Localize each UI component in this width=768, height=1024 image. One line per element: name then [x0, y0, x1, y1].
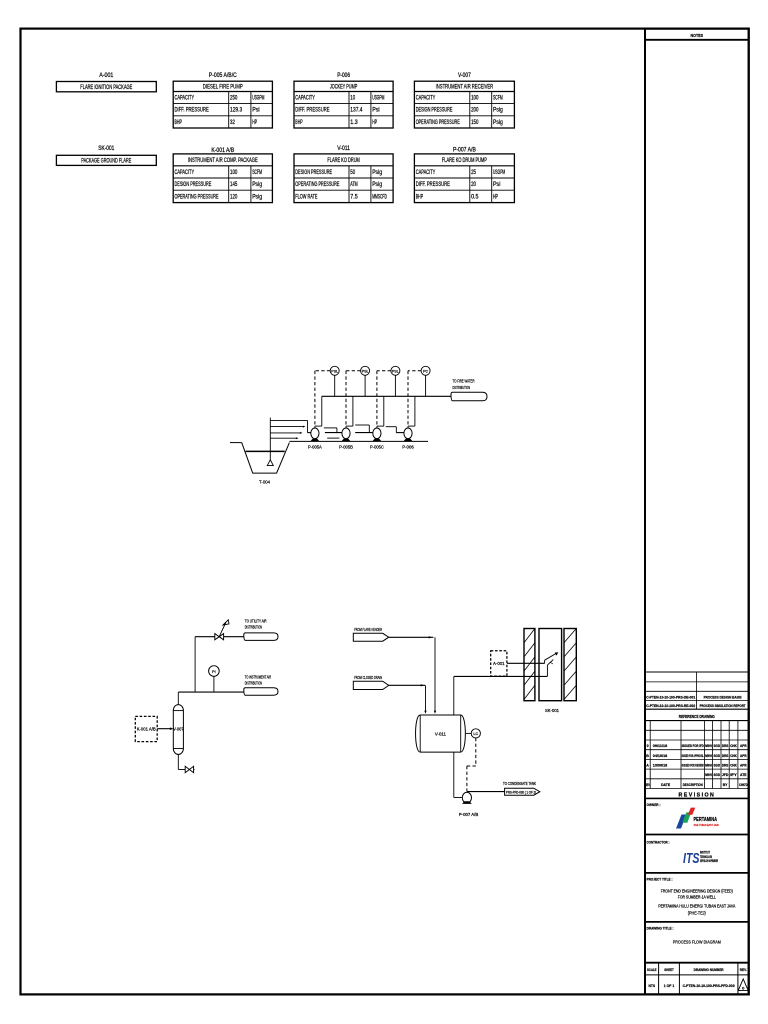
pressure control valve on utility air line — [215, 620, 229, 640]
svg-text:Psig: Psig — [493, 120, 503, 126]
flag FROM CLOSED DRAIN — [353, 675, 388, 689]
svg-text:Psi: Psi — [493, 182, 500, 188]
svg-text:20: 20 — [471, 182, 476, 188]
svg-text:V-011: V-011 — [435, 731, 447, 736]
svg-text:(PHE-TEJ): (PHE-TEJ) — [688, 911, 707, 916]
svg-text:Psig: Psig — [372, 182, 382, 188]
svg-text:DRAWING NUMBER: DRAWING NUMBER — [694, 968, 724, 972]
suction manifold line 3 — [270, 432, 301, 434]
svg-text:200: 200 — [471, 108, 479, 114]
equipment table P-007 A/B — [414, 147, 514, 202]
ground line under pumps — [289, 440, 428, 442]
svg-text:PROCESS DESIGN BASIS: PROCESS DESIGN BASIS — [704, 695, 742, 699]
svg-text:DRS: DRS — [722, 754, 729, 758]
pump P-007 A/B — [459, 792, 479, 817]
svg-text:HP: HP — [493, 194, 498, 200]
svg-text:BHP: BHP — [416, 194, 423, 200]
svg-text:REFERENCE DRAWING: REFERENCE DRAWING — [679, 714, 715, 719]
svg-text:DESCRIPTION: DESCRIPTION — [683, 783, 703, 787]
svg-text:SHEET: SHEET — [664, 968, 674, 972]
svg-text:SGD: SGD — [714, 754, 721, 758]
svg-text:C-PTEN-10-10-100-PRS-DB-001: C-PTEN-10-10-100-PRS-DB-001 — [646, 695, 695, 699]
fire water discharge header — [322, 395, 451, 397]
svg-text:SK-001: SK-001 — [545, 708, 559, 714]
svg-text:PHE TUBAN EAST JAVA: PHE TUBAN EAST JAVA — [694, 823, 719, 827]
utility air line — [195, 636, 215, 638]
svg-text:P-006: P-006 — [337, 73, 350, 79]
svg-text:DRS: DRS — [722, 764, 729, 768]
svg-text:C-PTEN-10-10-100-PRS-RE-002: C-PTEN-10-10-100-PRS-RE-002 — [646, 704, 695, 708]
svg-text:SCFM: SCFM — [493, 96, 503, 102]
svg-text:137.4: 137.4 — [350, 108, 363, 114]
svg-text:32: 32 — [230, 120, 235, 126]
svg-text:DIFF. PRESSURE: DIFF. PRESSURE — [295, 108, 329, 114]
svg-text:PACKAGE GROUND FLARE: PACKAGE GROUND FLARE — [81, 159, 131, 165]
ground flare SK-001 right wall (hatched) — [564, 629, 576, 701]
svg-text:SEPULUH NOPEMBER: SEPULUH NOPEMBER — [700, 859, 718, 863]
instrument PC for P-006 — [421, 366, 430, 375]
flag TO CONDENSATE TANK — [503, 781, 540, 795]
svg-text:TO CONDENSATE TANK: TO CONDENSATE TANK — [503, 781, 536, 786]
svg-text:TO INSTRUMENT AIR: TO INSTRUMENT AIR — [245, 675, 272, 680]
svg-text:SGD: SGD — [714, 773, 721, 777]
svg-text:SCALE: SCALE — [647, 968, 657, 972]
notes box — [645, 33, 749, 40]
svg-text:INSTRUMENT AIR RECEIVER: INSTRUMENT AIR RECEIVER — [436, 84, 494, 90]
svg-text:25: 25 — [471, 170, 476, 176]
svg-text:OPERATING PRESSURE: OPERATING PRESSURE — [295, 182, 339, 188]
svg-text:MWH: MWH — [705, 773, 712, 777]
discharge riser of P-005A — [321, 396, 323, 426]
svg-text:V-011: V-011 — [337, 146, 350, 152]
svg-text:DRAWING TITLE :: DRAWING TITLE : — [647, 925, 674, 930]
burner riser in ground flare — [546, 665, 548, 676]
svg-text:100: 100 — [471, 96, 479, 102]
svg-text:MMSCFD: MMSCFD — [372, 194, 387, 200]
closed drain inlet line — [389, 684, 425, 686]
svg-text:FLOW RATE: FLOW RATE — [295, 194, 317, 200]
svg-text:OPERATING PRESSURE: OPERATING PRESSURE — [416, 120, 460, 126]
instrument PSL for P-005A — [330, 366, 339, 375]
svg-text:CHK'D: CHK'D — [739, 783, 748, 787]
svg-text:DESIGN PRESSURE: DESIGN PRESSURE — [175, 182, 212, 188]
flag TO FIRE WATER DISTRIBUTION — [451, 378, 487, 401]
svg-text:DISTRIBUTION: DISTRIBUTION — [453, 385, 471, 391]
svg-text:APR: APR — [740, 754, 747, 758]
ground flare SK-001 left wall (hatched) — [524, 629, 535, 701]
svg-text:CAPACITY: CAPACITY — [416, 96, 436, 102]
condensate line from pump — [467, 791, 505, 793]
svg-text:FROM CLOSED DRAIN: FROM CLOSED DRAIN — [354, 675, 382, 680]
svg-text:Psig: Psig — [252, 182, 262, 188]
discharge riser of P-005C — [383, 396, 385, 426]
project title box — [645, 876, 749, 922]
svg-text:A: A — [646, 764, 649, 768]
svg-text:DIESEL FIRE PUMP: DIESEL FIRE PUMP — [203, 84, 243, 90]
svg-text:MWH: MWH — [705, 764, 712, 768]
svg-text:DESIGN PRESSURE: DESIGN PRESSURE — [416, 108, 453, 114]
svg-text:129.3: 129.3 — [230, 108, 243, 114]
svg-text:BHP: BHP — [175, 120, 182, 126]
svg-text:P-007 A/B: P-007 A/B — [453, 147, 476, 153]
air receiver vessel V-007 — [173, 705, 184, 755]
pilot line from A-001 to burner — [507, 662, 545, 664]
svg-text:PERTAMINA: PERTAMINA — [694, 817, 718, 823]
svg-text:APR: APR — [740, 744, 747, 748]
signal line (dashed) to pump — [408, 370, 421, 372]
discharge riser of P-005B — [352, 396, 354, 426]
svg-text:SGD: SGD — [714, 744, 721, 748]
PI stem — [213, 676, 215, 692]
drawing title box — [645, 925, 749, 962]
flag FROM FLARE HEADER — [353, 627, 388, 641]
suction manifold line 4 — [270, 437, 297, 439]
svg-text:JFD: JFD — [722, 773, 729, 777]
instrument stub to header — [364, 375, 366, 396]
svg-text:10: 10 — [350, 96, 355, 102]
instrument stub to header — [394, 375, 396, 396]
flare gas inlet line — [389, 636, 434, 638]
svg-text:CHK: CHK — [730, 754, 737, 758]
svg-text:DATE: DATE — [661, 783, 671, 787]
water level line in basin — [246, 450, 285, 452]
svg-text:JOCKEY PUMP: JOCKEY PUMP — [330, 84, 358, 90]
equipment table V-011 — [294, 146, 393, 203]
svg-text:1 OF 1: 1 OF 1 — [664, 984, 675, 988]
svg-text:DISTRIBUTION: DISTRIBUTION — [245, 624, 262, 629]
V-011 bottom drain line — [453, 752, 455, 797]
svg-text:P-006: P-006 — [402, 445, 414, 451]
svg-text:C-PTEN-10-10-100-PRS-PFD-003: C-PTEN-10-10-100-PRS-PFD-003 — [683, 984, 735, 988]
instrument PSL for P-005C — [391, 366, 400, 375]
svg-text:DIFF. PRESSURE: DIFF. PRESSURE — [416, 182, 450, 188]
svg-text:HP: HP — [372, 120, 377, 126]
svg-text:ISSUED FOR IFD: ISSUED FOR IFD — [682, 744, 704, 748]
svg-text:PERTAMINA HULU ENERGI TUBAN EA: PERTAMINA HULU ENERGI TUBAN EAST JAVA — [658, 904, 735, 909]
svg-text:APR: APR — [740, 764, 747, 768]
svg-text:K-001 A/B: K-001 A/B — [211, 148, 234, 154]
svg-text:PI: PI — [212, 670, 216, 674]
svg-text:CAPACITY: CAPACITY — [175, 170, 195, 176]
svg-text:FROM FLARE HEADER: FROM FLARE HEADER — [354, 627, 382, 632]
svg-text:CONTRACTOR :: CONTRACTOR : — [647, 840, 670, 845]
pump P-005C — [370, 428, 384, 451]
vessel drain line — [177, 754, 179, 769]
suction manifold line 2 — [270, 426, 304, 428]
svg-text:R E V I S I O N: R E V I S I O N — [679, 792, 715, 798]
svg-text:04/10/18: 04/10/18 — [653, 754, 667, 758]
svg-text:Psi: Psi — [372, 108, 379, 114]
svg-text:0.5: 0.5 — [471, 194, 479, 200]
svg-text:REV.: REV. — [645, 783, 651, 787]
equipment table K-001 A/B — [173, 148, 272, 203]
svg-text:PSL: PSL — [331, 370, 338, 374]
svg-text:1.3: 1.3 — [350, 120, 358, 126]
svg-text:TEKNOLOGI: TEKNOLOGI — [700, 855, 712, 859]
svg-text:ISSUED FOR REVIEW: ISSUED FOR REVIEW — [682, 764, 704, 768]
svg-text:BHP: BHP — [295, 120, 302, 126]
svg-text:50: 50 — [350, 170, 355, 176]
svg-text:B: B — [646, 754, 649, 758]
svg-text:Psig: Psig — [493, 108, 503, 114]
svg-text:DRS: DRS — [722, 744, 729, 748]
svg-text:A-001: A-001 — [493, 661, 505, 666]
svg-text:P-005 A/B/C: P-005 A/B/C — [209, 73, 238, 79]
LC signal line (dashed) to pump P-007 — [475, 738, 477, 766]
ground flare SK-001 combustion chamber — [539, 629, 562, 701]
svg-text:PRS-PFD-030 ( 1 OF 2): PRS-PFD-030 ( 1 OF 2) — [506, 791, 536, 795]
svg-text:ATM: ATM — [350, 182, 357, 188]
svg-text:DISTRIBUTION: DISTRIBUTION — [245, 680, 262, 685]
svg-text:Psi: Psi — [252, 108, 259, 114]
equipment table V-007 — [414, 73, 514, 128]
suction manifold line 1 — [270, 419, 307, 421]
svg-text:0: 0 — [647, 744, 649, 748]
svg-text:145: 145 — [230, 182, 238, 188]
svg-text:Psig: Psig — [252, 194, 262, 200]
package K-001 A/B dashed box — [135, 716, 157, 741]
svg-text:FLARE IGNITION PACKAGE: FLARE IGNITION PACKAGE — [80, 85, 132, 91]
svg-text:CAPACITY: CAPACITY — [416, 170, 436, 176]
svg-text:INSTRUMENT AIR COMP. PACKAGE: INSTRUMENT AIR COMP. PACKAGE — [188, 158, 258, 164]
svg-text:PC: PC — [423, 370, 428, 374]
discharge riser of P-006 — [414, 396, 416, 426]
instrument PI — [209, 666, 220, 677]
revision triangle — [738, 979, 748, 991]
svg-text:PROCESS SIMULATION REPORT: PROCESS SIMULATION REPORT — [700, 704, 747, 708]
svg-text:OWNER :: OWNER : — [647, 802, 661, 807]
pump P-005A — [308, 428, 322, 451]
suction crossover segments between P-005C and P-006 — [386, 426, 397, 428]
svg-text:V-007: V-007 — [458, 73, 471, 79]
svg-text:Psig: Psig — [372, 170, 382, 176]
svg-text:CHK: CHK — [730, 744, 737, 748]
contractor box with ITS logo — [645, 840, 749, 873]
svg-text:PROJECT TITLE :: PROJECT TITLE : — [647, 876, 673, 881]
svg-text:PROCESS FLOW DIAGRAM: PROCESS FLOW DIAGRAM — [673, 939, 721, 945]
svg-text:13/09/18: 13/09/18 — [653, 764, 667, 768]
svg-text:7.5: 7.5 — [350, 194, 358, 200]
svg-text:FOR SUMBER-1A WELL: FOR SUMBER-1A WELL — [678, 895, 717, 900]
flare KO drum V-011 — [416, 715, 466, 752]
flare gas line V-011 to ground flare — [453, 676, 455, 715]
flag TO UTILITY AIR DISTRIBUTION — [244, 619, 278, 641]
level float triangle — [267, 460, 273, 466]
instrument stub to header — [425, 375, 427, 396]
svg-text:ISSUED FOR APPROVAL: ISSUED FOR APPROVAL — [682, 754, 704, 758]
svg-text:250: 250 — [230, 96, 238, 102]
instrument stub to header — [334, 375, 336, 396]
signal line (dashed) to pump — [315, 370, 330, 372]
ignition package A-001 dashed box — [491, 651, 507, 676]
svg-text:INSTITUT: INSTITUT — [700, 850, 711, 854]
svg-text:MWH: MWH — [705, 744, 712, 748]
svg-text:TO FIRE WATER: TO FIRE WATER — [453, 378, 475, 384]
pump P-006 — [402, 428, 414, 451]
svg-text:FLARE KO DRUM PUMP: FLARE KO DRUM PUMP — [442, 158, 487, 164]
svg-text:ITS: ITS — [683, 850, 700, 867]
svg-text:USGPM: USGPM — [372, 96, 384, 102]
svg-text:P-005C: P-005C — [370, 445, 384, 451]
air line from K-001 to V-007 — [157, 728, 171, 730]
svg-text:SGD: SGD — [714, 764, 721, 768]
vessel top outlet line — [177, 692, 179, 705]
svg-text:TO UTILITY AIR: TO UTILITY AIR — [245, 619, 267, 624]
svg-text:PSL: PSL — [362, 370, 369, 374]
owner box with PERTAMINA logo — [645, 798, 749, 834]
reference drawing table — [645, 672, 749, 721]
svg-text:09/11/18: 09/11/18 — [653, 744, 667, 748]
signal line (dashed) to pump — [377, 370, 391, 372]
svg-text:FLARE KO DRUM: FLARE KO DRUM — [327, 158, 360, 164]
pump P-005B — [339, 428, 353, 451]
equipment table P-005 A/B/C — [173, 73, 272, 128]
suction crossover segments between P-005A and P-005B — [324, 427, 337, 429]
svg-text:USGPM: USGPM — [493, 170, 505, 176]
svg-text:OPERATING PRESSURE: OPERATING PRESSURE — [175, 194, 219, 200]
svg-text:HP: HP — [252, 120, 257, 126]
svg-text:REV.: REV. — [740, 968, 747, 972]
svg-text:FRONT END ENGINEERING DESIGN (: FRONT END ENGINEERING DESIGN (FEED) — [661, 888, 733, 893]
svg-text:A-001: A-001 — [99, 73, 114, 79]
svg-text:P-005A: P-005A — [308, 445, 322, 451]
svg-text:T-004: T-004 — [259, 480, 270, 486]
svg-text:SK-001: SK-001 — [98, 146, 115, 152]
svg-text:DESIGN PRESSURE: DESIGN PRESSURE — [295, 170, 332, 176]
scale/sheet/number strip — [645, 963, 749, 995]
drain valve — [185, 766, 189, 772]
svg-text:NTS: NTS — [649, 984, 656, 988]
suction crossover segments between P-005B and P-005C — [355, 424, 369, 426]
instrument PSL for P-005B — [361, 366, 370, 375]
svg-text:K-001 A/B: K-001 A/B — [137, 727, 156, 732]
suction drop to pump P-005A — [307, 420, 309, 432]
svg-text:DIFF. PRESSURE: DIFF. PRESSURE — [175, 108, 209, 114]
svg-text:USGPM: USGPM — [252, 96, 264, 102]
instrument air line — [178, 691, 244, 693]
svg-text:V-007: V-007 — [173, 727, 184, 732]
svg-text:BY: BY — [723, 783, 728, 787]
fire water basin T-004 — [242, 443, 290, 474]
svg-text:CAPACITY: CAPACITY — [295, 96, 315, 102]
flag TO INSTRUMENT AIR DISTRIBUTION — [244, 675, 278, 696]
equipment box A-001 FLARE IGNITION PACKAGE — [56, 73, 156, 92]
title block outer border — [645, 29, 749, 995]
equipment table P-006 — [294, 73, 393, 128]
svg-text:150: 150 — [471, 120, 479, 126]
svg-text:SCFM: SCFM — [252, 170, 262, 176]
svg-text:LC: LC — [473, 732, 478, 736]
svg-text:CAPACITY: CAPACITY — [175, 96, 195, 102]
signal line (dashed) to pump — [346, 370, 361, 372]
svg-text:IFY: IFY — [730, 773, 737, 777]
svg-text:CHK: CHK — [730, 764, 737, 768]
svg-text:P-005B: P-005B — [339, 445, 353, 451]
svg-text:100: 100 — [230, 170, 238, 176]
equipment box SK-001 PACKAGE GROUND FLARE — [56, 146, 156, 166]
ground line left of basin — [230, 442, 242, 444]
revision table — [645, 721, 749, 799]
svg-text:ATE: ATE — [740, 773, 747, 777]
level float stick in basin — [269, 418, 271, 460]
svg-text:NOTES: NOTES — [691, 33, 704, 39]
svg-text:P-007 A/B: P-007 A/B — [459, 812, 479, 817]
svg-text:PSL: PSL — [392, 370, 399, 374]
instrument LC — [466, 732, 471, 734]
svg-text:120: 120 — [230, 194, 238, 200]
svg-text:MWH: MWH — [705, 754, 712, 758]
branch riser to utility air — [194, 637, 196, 692]
